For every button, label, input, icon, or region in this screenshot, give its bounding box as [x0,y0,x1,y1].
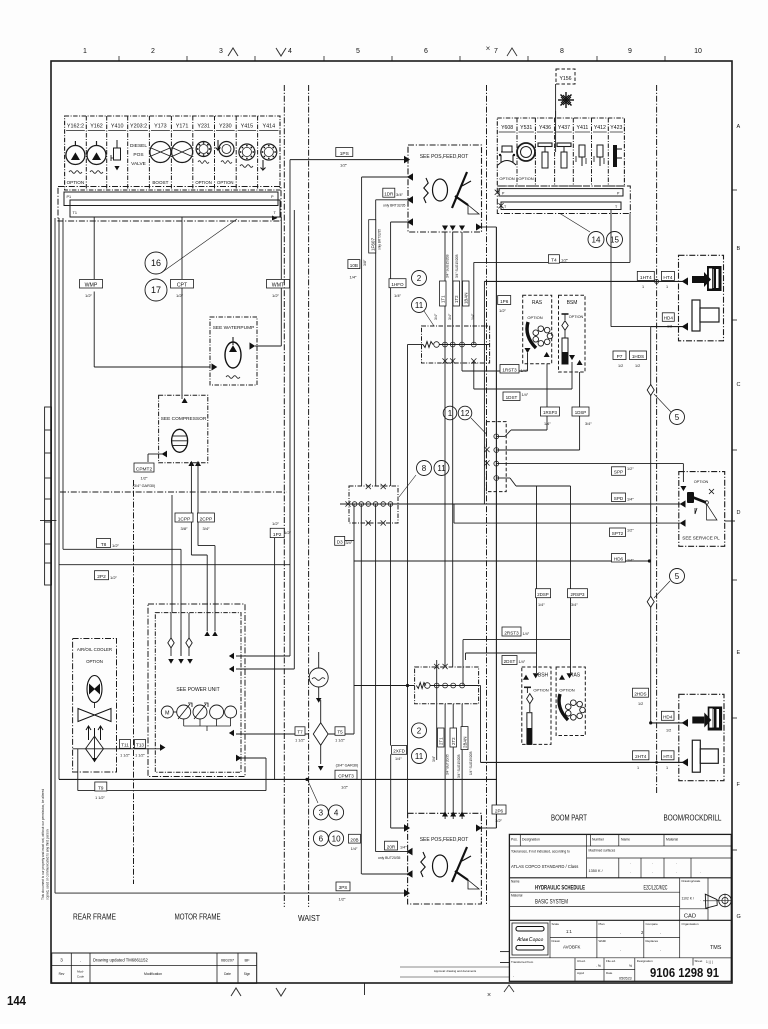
label 3PS [336,882,350,891]
wire 2DST [466,652,537,654]
power unit bottom out [236,755,241,762]
valve Y231 symbol [196,142,211,157]
svg-text:BASIC SYSTEM: BASIC SYSTEM [535,899,568,906]
svg-text:1T2: 1T2 [454,295,459,303]
svg-text:3/8″: 3/8″ [363,259,367,266]
wire 2XFD [390,754,392,828]
svg-text:Y414: Y414 [263,124,276,130]
svg-text:Number: Number [592,838,605,842]
svg-text:3/4″: 3/4″ [346,541,353,545]
svg-text:3/4″ SUG15/20B: 3/4″ SUG15/20B [455,255,459,278]
svg-text:2P2: 2P2 [97,574,106,580]
valve Y437 symbol [557,143,571,147]
bottom manifold left feed [406,684,409,687]
svg-text:1/4″: 1/4″ [395,757,402,761]
label 2RSP3 [568,589,588,598]
valve Y531 symbol [517,143,535,161]
circle 12 [458,406,472,420]
circle 2 top [412,271,427,286]
svg-text:Drawing/scale: Drawing/scale [682,879,701,883]
label HD6 [612,554,626,563]
filter diamond mid [313,723,328,746]
svg-text:SPP: SPP [614,470,623,475]
svg-text:2RST3: 2RST3 [504,630,519,635]
valve Y410 symbol [114,148,121,160]
svg-text:Material: Material [511,894,523,898]
svg-text:5: 5 [675,413,680,422]
svg-text:3/4″ SUG15/20B: 3/4″ SUG15/20B [446,255,450,278]
svg-text:2: 2 [151,48,155,55]
svg-text:1RSP3: 1RSP3 [543,410,557,415]
wire 1DSP [496,449,579,451]
svg-text:2XFD: 2XFD [393,749,405,754]
circle 3 [313,805,328,820]
wire 3PS [55,892,404,894]
svg-text:.: . [630,869,631,874]
svg-text:TMS: TMS [710,945,722,951]
power unit jog lines [171,495,173,613]
fold marks top [228,48,238,56]
svg-text:only BRT32/35: only BRT32/35 [383,204,405,208]
label SPT2 [610,528,626,537]
valve Y423 symbol [613,145,617,167]
label 1RST3 [500,365,519,374]
boom rockdrill box bottom [679,694,724,780]
svg-text:8: 8 [560,48,564,55]
svg-text:1:1: 1:1 [566,929,572,934]
left trunk wires [54,218,56,893]
svg-text:Y173: Y173 [154,124,167,130]
supply wires bottom [436,660,438,760]
svg-text:1/4″: 1/4″ [519,660,526,664]
label 1DR [383,188,395,197]
svg-text:. %: . % [596,964,601,968]
label 1DSP [572,407,589,416]
svg-text:1/2″: 1/2″ [141,476,149,481]
wire 1DR [376,199,409,201]
wire WMT [280,217,282,279]
circle 2 bottom [412,723,427,738]
label 2XFD [392,746,407,755]
svg-text:Y156: Y156 [559,76,571,82]
svg-text:1/2: 1/2 [667,325,672,329]
BSH option box bottom [522,667,551,744]
svg-text:T7: T7 [297,730,303,735]
svg-text:File ed.: File ed. [606,959,616,963]
rockdrill symbol bottom [708,707,722,731]
power unit top inlet triangles [204,631,210,636]
wire WMP [93,217,95,279]
svg-text:E2C/L2C/M2C: E2C/L2C/M2C [644,886,668,892]
pump 2 [193,705,207,719]
wire D3 [345,540,354,542]
arrow into rockdrill top [682,277,688,285]
svg-text:2T2: 2T2 [451,737,456,745]
border frame [51,61,732,983]
svg-text:1 1/2″: 1 1/2″ [335,739,345,743]
RAS arrows top [525,348,531,353]
label 1HFO [389,279,406,288]
svg-text:Sheet: Sheet [695,959,703,963]
svg-text:BSM: BSM [567,300,578,306]
svg-text:1/4″: 1/4″ [394,293,402,298]
svg-text:17: 17 [151,285,161,295]
svg-text:6: 6 [424,48,428,55]
label HD4 bottom [661,711,674,720]
svg-text:.: . [620,930,621,935]
svg-text:%: % [629,964,632,968]
divider waist left [283,85,285,907]
wire 1DB out [362,176,409,178]
svg-text:12: 12 [461,409,470,418]
circle 11 top [412,298,427,313]
valve Y412 symbol [597,145,603,157]
svg-text:OPTION: OPTION [569,315,584,319]
see pos feed rot inlet arrow [404,156,410,164]
svg-text:1/4″: 1/4″ [350,275,358,280]
svg-text:1/2″: 1/2″ [176,293,184,298]
spring manifold top internals [423,342,433,348]
svg-text:Y171: Y171 [176,124,189,130]
svg-text:Ult.ed.: Ult.ed. [577,959,586,963]
waterpump in arrow [212,363,218,370]
pump bracket [183,719,185,726]
svg-text:Width: Width [599,939,607,943]
svg-text:Y415: Y415 [241,124,254,130]
svg-text:20B: 20B [350,838,358,843]
svg-text:OPTION: OPTION [499,176,514,181]
svg-text:3/8″: 3/8″ [181,526,189,531]
svg-text:16: 16 [151,258,161,268]
circle 6 [313,831,328,846]
svg-text:1/2″: 1/2″ [339,897,347,902]
svg-text:.: . [700,869,701,874]
label T5 [335,727,345,736]
arrows bottom edge top box [442,226,448,231]
wire 20B [362,873,408,875]
svg-text:Transferred from: Transferred from [511,960,534,964]
svg-text:1BAN: 1BAN [464,293,469,304]
svg-text:1P6: 1P6 [500,299,509,304]
svg-text:copied, used or communicated t: copied, used or communicated to any thir… [46,829,50,900]
svg-text:HT4: HT4 [663,275,672,281]
svg-text:VALVE: VALVE [131,161,146,167]
svg-text:1 1/2″: 1 1/2″ [95,796,105,800]
svg-text:AIR/OIL COOLER: AIR/OIL COOLER [77,647,112,652]
cooler flow arrows [86,726,91,740]
circle 11 mid [434,461,449,476]
label 2DSP [536,589,551,598]
circle 5 bottom [670,569,685,584]
svg-text:OPTION: OPTION [533,688,548,693]
svg-text:1HDS: 1HDS [632,354,644,359]
svg-text:B: B [737,246,741,252]
svg-text:Y436: Y436 [539,125,551,131]
long trunk line [59,778,497,780]
wire T9 [77,749,79,791]
svg-text:Code: Code [77,975,85,979]
wire pos box out right [481,226,496,228]
svg-text:POS: POS [133,152,143,158]
valve bank boom enclosure [497,118,624,186]
projection symbol [705,894,717,908]
leader 12 [471,418,486,434]
svg-text:1: 1 [83,48,87,55]
label HD4 top [662,313,674,322]
svg-text:Y231: Y231 [197,124,210,130]
service pl out right [725,520,735,522]
divider boom left [486,85,488,904]
svg-text:3/4″: 3/4″ [448,313,452,320]
svg-text:15: 15 [610,235,619,244]
svg-text:1P2: 1P2 [273,532,282,538]
cooler line T11 T13 [73,748,160,750]
svg-text:T4: T4 [551,258,557,264]
label SPP [612,467,626,476]
circle 8 [417,461,432,476]
label 1P6 [498,296,511,305]
svg-text:9106 1298 91: 9106 1298 91 [650,966,719,980]
svg-text:C: C [737,382,741,388]
svg-text:Name: Name [511,880,520,884]
svg-text:SPT2: SPT2 [612,531,624,536]
leader to circles 14 15 [560,214,590,233]
svg-text:(3/4″ GAR30): (3/4″ GAR30) [133,484,156,488]
wire manifold left exit [408,344,424,346]
svg-text:1/2″: 1/2″ [272,293,280,298]
svg-text:4: 4 [288,48,292,55]
svg-text:1/4″: 1/4″ [627,498,634,502]
svg-text:1/4″: 1/4″ [627,559,634,563]
wire P7 HD4 trunk [610,210,612,327]
svg-text:HYDRAULIC SCHEDULE: HYDRAULIC SCHEDULE [535,885,585,892]
label 20R [385,841,398,850]
svg-text:BOOM PART: BOOM PART [551,814,587,823]
svg-text:Compare: Compare [646,922,659,926]
svg-text:3/4″: 3/4″ [434,313,438,320]
pos feed rot symbols bottom [421,852,425,877]
manifold bar T1 [70,200,280,217]
svg-text:.: . [652,860,653,865]
svg-text:HT4: HT4 [663,754,672,759]
middle manifold box [349,486,398,523]
RAS hose symbol top [527,322,536,348]
svg-text:7: 7 [494,48,498,55]
svg-text:OPTION: OPTION [67,180,85,185]
svg-text:D: D [737,510,741,516]
waterpump out arrow [250,342,256,349]
compressor feed arrow [182,398,188,403]
label T7 [295,727,305,736]
circle 10 [329,831,344,846]
svg-text:T8: T8 [101,542,107,548]
wire 1RST3 [461,361,463,371]
label 1RSP3 [541,407,560,416]
svg-text:This document is our property: This document is our property and must n… [41,789,45,900]
svg-text:1 1/2″: 1 1/2″ [295,739,305,743]
boom rockdrill box top [679,255,724,340]
svg-text:E: E [737,650,741,656]
wire 2HT4 [620,761,684,763]
circle 4 [329,805,344,820]
svg-text:10: 10 [694,48,702,55]
svg-text:T11: T11 [121,743,129,748]
manifold bar P boom [497,186,630,214]
see service pl box [679,472,725,547]
circle 11 bottom [412,749,427,764]
valve Y436 symbol [538,143,552,147]
svg-text:Drawing updated TM6861152: Drawing updated TM6861152 [93,958,148,963]
circle 1 [443,406,457,420]
valve Y171 symbol [172,142,193,163]
manifold bar P1 rear frame [58,187,281,222]
svg-text:1/4″: 1/4″ [523,632,530,636]
svg-text:ATLAS COPCO STANDARD / Class: ATLAS COPCO STANDARD / Class [511,864,578,869]
label 1DST [503,392,520,401]
tolerances row [509,877,731,879]
svg-text:1/2″: 1/2″ [341,785,349,790]
svg-text:1/2″: 1/2″ [110,575,118,580]
label HT4 top [661,271,674,280]
svg-text:1DST: 1DST [506,395,518,400]
svg-text:.: . [513,973,514,978]
svg-text:3/4″: 3/4″ [396,192,404,197]
svg-text:1350 K /: 1350 K / [589,869,604,873]
power unit left inlet [160,744,165,751]
svg-text:2HDS: 2HDS [634,692,646,697]
label 2P2 [59,564,290,566]
svg-text:1/2″: 1/2″ [561,258,569,263]
svg-text:Pos.: Pos. [511,838,518,842]
svg-text:1/2: 1/2 [635,364,640,368]
label 2P6 [492,805,506,814]
svg-text:only BRT32/35: only BRT32/35 [378,229,382,250]
wire 2P6 [481,827,496,829]
compressor symbol [172,429,188,452]
wire 20R [376,851,408,853]
svg-text:3/4″: 3/4″ [203,526,211,531]
svg-text:T9: T9 [98,785,104,790]
svg-text:CAD: CAD [684,914,696,920]
pos feed rot symbols top [424,178,428,203]
svg-text:OPTION: OPTION [518,176,533,181]
svg-text:SEE POWER UNIT: SEE POWER UNIT [176,687,219,693]
svg-text:060207: 060207 [221,958,235,963]
svg-text:1 1/2″: 1 1/2″ [135,754,145,758]
cooler filter diamond [86,736,104,761]
svg-text:Y410: Y410 [111,124,124,130]
svg-text:OPTION: OPTION [195,180,211,185]
svg-text:SPD: SPD [614,496,624,501]
svg-text:Designation: Designation [637,959,653,963]
svg-text:MOTOR FRAME: MOTOR FRAME [175,913,221,922]
label HT4 bottom [661,751,674,760]
svg-text:BOOST: BOOST [152,180,168,185]
svg-text:OPTION: OPTION [527,315,542,320]
svg-text:Scale: Scale [552,922,560,926]
svg-text:Replaces: Replaces [646,939,659,943]
svg-text:CPMT3: CPMT3 [338,774,354,779]
wire T4 [629,214,631,263]
wire to trunk [390,504,392,746]
title mid grid [549,920,551,958]
waterpump symbol [225,342,241,368]
label D3 [335,536,345,545]
compressor in arrow [162,451,167,458]
svg-text:.: . [620,947,621,952]
svg-text:Machined surfaces: Machined surfaces [589,849,616,853]
svg-text:1102 K /: 1102 K / [682,897,694,901]
svg-text:2T1: 2T1 [439,737,444,745]
trunk 1P6 vertical [495,227,497,828]
svg-text:3: 3 [319,808,324,817]
label SPD [612,493,626,502]
svg-text:Name: Name [621,838,630,842]
svg-text:Y437: Y437 [558,125,570,131]
svg-text:1/2″: 1/2″ [272,521,280,526]
svg-text:2HT4: 2HT4 [635,754,647,759]
wire SPP [496,463,683,465]
wire 1HFO [391,221,409,223]
valve Y162 symbol [87,146,106,165]
label CPMT2 [134,463,154,472]
see waterpump box [210,317,257,385]
svg-text:BF: BF [244,958,250,963]
label 2DST [502,656,517,665]
svg-text:.: . [660,947,661,952]
svg-text:1: 1 [666,285,668,289]
circle 15 [607,232,623,248]
wire T7 T5 [236,733,309,735]
svg-text:8: 8 [422,464,427,473]
svg-text:Y203:2: Y203:2 [130,124,147,130]
svg-text:.: . [652,869,653,874]
svg-text:×: × [486,44,491,53]
svg-text:A: A [737,124,741,130]
svg-text:T1: T1 [73,211,77,215]
cooler fan blades [78,709,95,722]
BSM symbol top [562,313,569,315]
svg-text:1HFO: 1HFO [391,282,404,287]
svg-text:OPTION: OPTION [86,659,103,664]
svg-text:REAR FRAME: REAR FRAME [73,913,116,922]
BSM arrows top [569,355,575,360]
pump 3 [210,705,224,719]
x marks bottom manifold [434,664,439,669]
svg-text:1: 1 [637,766,639,770]
power unit right arrows [229,653,234,659]
svg-text:Organisation: Organisation [682,922,699,926]
RAS option box bottom [556,667,585,736]
svg-text:1/2″: 1/2″ [627,529,634,533]
svg-text:1T1: 1T1 [441,295,446,303]
spring manifold box top [422,326,490,363]
labels 1T1 1T2 1BAN rotated [440,281,447,306]
arrows bottom box edges [404,824,410,832]
svg-text:10: 10 [332,834,341,843]
svg-text:Approval: drawing and document: Approval: drawing and documents [434,969,477,973]
svg-text:2DSP: 2DSP [537,592,549,597]
svg-text:1 | | |: 1 | | | [706,960,713,964]
svg-text:G: G [737,914,741,920]
divider boom/rockdrill [656,85,658,794]
svg-text:RAS: RAS [532,300,543,306]
svg-text:9: 9 [628,48,632,55]
x marks below spring manifold [442,358,447,363]
power unit outer box [148,604,245,777]
svg-text:Y423: Y423 [610,125,622,131]
wire to 2DB [360,504,362,874]
